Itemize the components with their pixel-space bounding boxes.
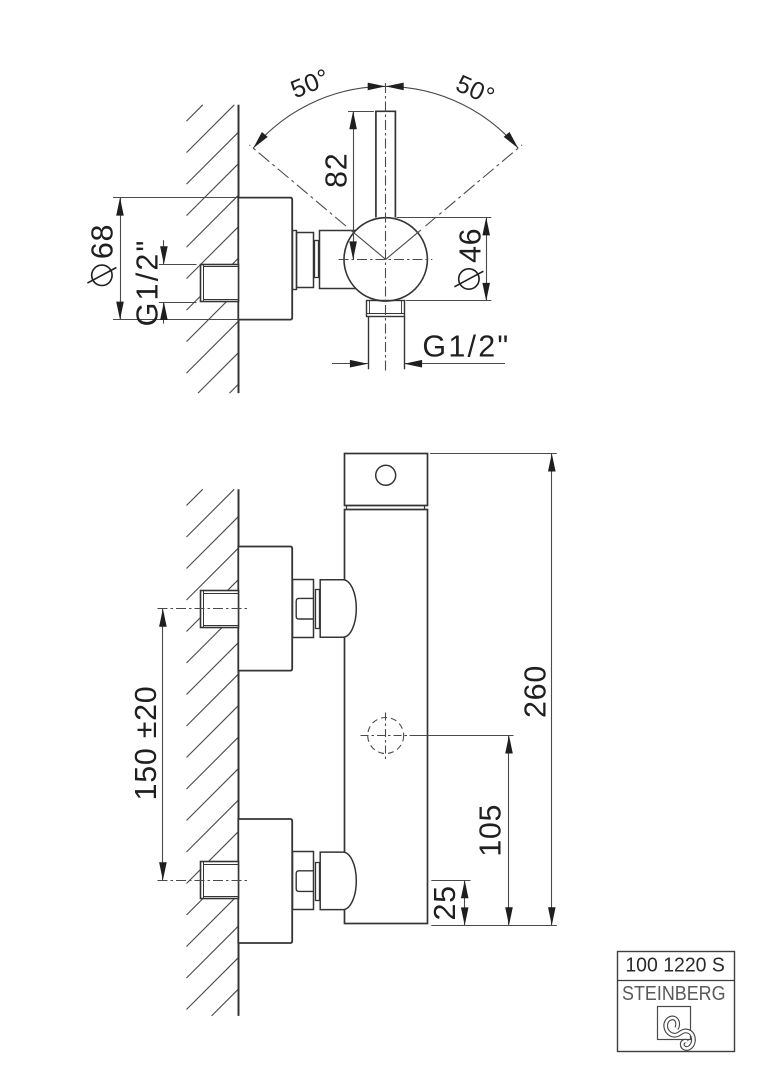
outlet nut below knob	[367, 301, 405, 317]
dimension 25 line and arrows	[461, 880, 469, 925]
dimension 105 line and arrows	[505, 736, 513, 926]
lower connection block	[293, 852, 314, 910]
dimension 82 line and arrows	[349, 111, 357, 259]
wall escutcheon (top view)	[238, 198, 292, 320]
mixer knob circle Ø46	[344, 218, 427, 301]
dimension 25 extension line	[431, 880, 470, 882]
logo squiggle	[666, 1018, 694, 1049]
lower escutcheon	[238, 819, 292, 943]
cartridge housing block (partly behind knob)	[320, 231, 411, 289]
svg-text:260: 260	[519, 665, 553, 718]
dimension 105 extension line	[410, 735, 514, 737]
upper flange ring	[316, 590, 320, 629]
svg-text:50°: 50°	[287, 63, 334, 104]
angular dimension arc 50 deg	[253, 86, 518, 148]
svg-text:68: 68	[86, 224, 120, 259]
dimension Ø68 line and arrows	[116, 198, 124, 320]
dimension 150 +-20 line and arrows	[159, 609, 167, 881]
dimension Ø46 line and arrows	[482, 217, 490, 301]
logo square	[658, 1007, 691, 1040]
upper escutcheon	[238, 547, 292, 671]
lower union nut	[296, 871, 313, 892]
wall face line (top view)	[238, 105, 240, 393]
lower inlet centerline	[158, 880, 250, 882]
svg-text:150 ±20: 150 ±20	[129, 686, 163, 801]
dimension G1/2 (left) line and arrows	[160, 240, 168, 323]
50 deg centerline ray left	[249, 145, 346, 226]
dimension 260 extension lines	[430, 454, 557, 926]
vertical centerline through handle and knob	[385, 83, 387, 371]
diverter button circle	[376, 465, 396, 485]
wall hatching (top view)	[187, 105, 239, 393]
dimension G1/2 (left) extension lines	[159, 265, 197, 303]
upper inlet centerline	[158, 608, 250, 610]
svg-text:25: 25	[428, 885, 462, 920]
lever handle (top view)	[376, 111, 396, 217]
body top cap	[345, 454, 428, 506]
title block box	[618, 952, 735, 1052]
upper union nut	[296, 598, 313, 619]
body top joint band	[347, 506, 425, 510]
G1/2 inlet connector in wall (top view)	[201, 264, 239, 301]
wall face line (front view)	[238, 489, 240, 1016]
dimension 82 extension line	[348, 111, 374, 113]
svg-text:46: 46	[454, 228, 488, 263]
svg-text:G1/2": G1/2"	[131, 238, 165, 326]
horizontal centerline of knob	[339, 259, 433, 261]
50 deg centerline ray right	[426, 145, 523, 226]
upper dome cover	[320, 580, 356, 638]
title block divider	[618, 980, 735, 982]
lever swing V lines inside knob	[351, 230, 421, 260]
ribbed ring	[315, 241, 319, 278]
svg-text:STEINBERG: STEINBERG	[622, 982, 726, 1005]
lower flange ring	[316, 863, 320, 901]
lower dome cover	[320, 852, 356, 910]
mid circle crosshair	[361, 713, 411, 760]
adapter block	[297, 233, 314, 288]
upper connection block	[293, 580, 314, 638]
upper G1/2 inlet in wall	[201, 591, 239, 628]
dimension Ø68 extension lines	[113, 198, 238, 320]
collar between escutcheon and valve body	[293, 231, 297, 290]
shower outlet mid circle (hidden)	[368, 718, 404, 754]
main body column	[345, 510, 428, 924]
svg-text:50°: 50°	[452, 70, 499, 112]
svg-text:82: 82	[320, 153, 354, 188]
svg-text:105: 105	[474, 804, 508, 857]
dimension 260 line and arrows	[548, 454, 556, 926]
svg-text:G1/2": G1/2"	[422, 330, 510, 364]
wall hatching (front view)	[187, 489, 239, 1016]
arc arrowheads	[253, 83, 518, 149]
lower G1/2 inlet in wall	[201, 862, 239, 899]
dimension G1/2 (bottom) line and arrows	[332, 360, 505, 368]
outlet pipe G1/2	[369, 317, 405, 370]
svg-text:100 1220 S: 100 1220 S	[625, 955, 725, 977]
dimension Ø46 extension lines	[397, 218, 492, 301]
